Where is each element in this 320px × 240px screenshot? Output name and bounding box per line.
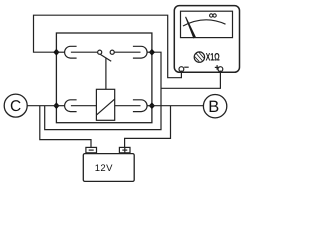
ohmmeter scale arc <box>183 20 226 26</box>
ohmmeter needle <box>185 17 196 39</box>
wire (pin 85 node to B) <box>152 105 204 107</box>
wire (ohmmeter minus terminal to relay pin 30 node, outer top loop) <box>34 15 182 77</box>
battery BT1 case <box>83 147 134 181</box>
range dial <box>194 52 204 62</box>
wire (C to pin 86 node) <box>27 105 56 107</box>
wire (junction to battery plus) <box>125 106 171 148</box>
node pin 86 (bottom-left) <box>53 102 59 109</box>
wire (junction to battery minus) <box>40 106 91 148</box>
wire (coil pin right) <box>115 105 141 107</box>
relay case K1 <box>56 33 151 123</box>
infinity mark <box>210 14 217 17</box>
node pin 87 (top-right) <box>149 49 155 56</box>
node pin 85 (bottom-right) <box>149 102 155 109</box>
svg-text:X1Ω: X1Ω <box>206 52 220 64</box>
wire (coil pin left) <box>71 105 97 107</box>
battery minus terminal sign <box>89 149 94 151</box>
svg-text:B: B <box>208 98 219 116</box>
ohmmeter plus terminal <box>218 67 223 72</box>
terminal B circle <box>203 95 226 118</box>
svg-text:C: C <box>10 98 21 115</box>
node pin 30 (top-left) <box>53 49 59 56</box>
switch contact right <box>110 50 114 54</box>
connector male pin top-right <box>114 51 140 53</box>
switch contact left <box>98 50 102 54</box>
connector male pin top-left <box>71 51 98 53</box>
connector female terminal top-left <box>56 46 76 58</box>
wire (loop junction to ohmmeter plus terminal) <box>161 71 220 89</box>
connector female terminal bottom-left <box>56 100 76 112</box>
terminal C circle <box>4 94 27 117</box>
ohmmeter display <box>181 11 233 37</box>
connector female terminal top-right <box>133 46 152 58</box>
switch blade (open) <box>100 54 111 61</box>
connector female terminal bottom-right <box>133 100 152 112</box>
mechanical link switch to coil <box>105 58 107 89</box>
battery plus terminal sign <box>122 148 127 153</box>
ohmmeter M1 case <box>174 6 239 73</box>
relay coil <box>96 89 114 120</box>
ohmmeter minus terminal <box>179 67 184 72</box>
wire (pin 87 node loop down and around to C wire junction) <box>45 52 161 129</box>
svg-text:12V: 12V <box>95 163 113 174</box>
plus terminal label <box>215 65 220 70</box>
minus terminal label <box>184 66 189 68</box>
